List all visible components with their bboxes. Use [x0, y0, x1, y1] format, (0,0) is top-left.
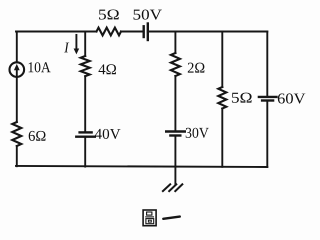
battery 60V short plate	[262, 99, 273, 101]
label 40V	[95, 129, 121, 139]
ground hatch 3	[175, 184, 182, 191]
wire right edge below 60V	[266, 101, 268, 168]
battery 30V short plate	[170, 134, 180, 136]
battery 50V long plate	[147, 24, 149, 41]
current arrow I head	[74, 49, 80, 55]
wire right edge above 60V	[266, 32, 268, 97]
wire branch1 between 4ohm and 40V	[84, 76, 86, 132]
resistor R 4ohm	[81, 56, 90, 76]
caption character tu (figure) box	[143, 210, 156, 226]
label 6ohm	[29, 131, 46, 141]
resistor R 5ohm horizontal	[97, 28, 122, 36]
resistor R 5ohm vertical	[218, 87, 226, 109]
label 60V	[278, 93, 306, 103]
wire branch2 below 30V	[174, 136, 176, 167]
battery 50V short plate	[142, 26, 144, 37]
label 4ohm	[99, 64, 117, 74]
label 50V	[134, 10, 162, 20]
wire ground stub	[174, 167, 176, 185]
ground hatch 2	[169, 184, 176, 191]
current source I1 10A circle	[9, 62, 24, 77]
label current I	[64, 43, 69, 53]
wire left edge above current source	[16, 32, 18, 63]
wire branch1 above 4ohm	[84, 32, 86, 57]
wire branch2 between 2ohm and 30V	[174, 76, 176, 131]
label 10A	[29, 62, 51, 72]
resistor R 2ohm	[171, 53, 180, 76]
wire top rail right segment	[148, 31, 267, 33]
current arrow I shaft	[75, 35, 77, 49]
ground hatch 1	[163, 184, 170, 191]
wire bottom rail	[16, 166, 267, 167]
current source arrow head	[14, 64, 20, 70]
current source arrow shaft	[16, 69, 18, 76]
wire branch3 below 5ohm	[221, 109, 223, 167]
wire branch2 above 2ohm	[174, 32, 176, 54]
wire left edge below 6ohm	[16, 146, 18, 166]
wire top rail between 5ohm and 50V	[121, 31, 144, 33]
battery 40V long plate	[76, 135, 95, 137]
label 2ohm	[188, 63, 205, 73]
resistor R 6ohm	[12, 122, 21, 146]
wire left edge below current source	[16, 77, 18, 122]
label 5ohm top	[99, 9, 119, 19]
caption character yi (one) stroke	[163, 217, 180, 219]
label 5ohm vertical	[232, 93, 252, 103]
battery 30V long plate	[166, 130, 185, 132]
battery 40V short plate	[80, 131, 92, 133]
battery 60V long plate	[259, 96, 277, 98]
label 30V	[186, 128, 209, 138]
wire branch3 above 5ohm	[221, 32, 223, 88]
wire top rail left segment	[16, 31, 97, 33]
wire branch1 below 40V	[84, 137, 86, 167]
